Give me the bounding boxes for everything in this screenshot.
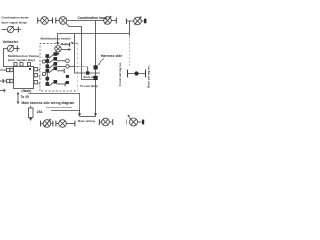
wire hazard feed	[57, 34, 59, 43]
connector half T3	[37, 18, 39, 24]
svg-text:Combination meter: Combination meter	[2, 16, 30, 20]
multifunction switch box	[40, 44, 78, 92]
svg-text:Combination lamp: Combination lamp	[78, 16, 108, 20]
connector half T6	[125, 19, 127, 25]
lamp L3	[104, 17, 112, 25]
svg-text:Voltmeter: Voltmeter	[3, 40, 19, 44]
harness connector lower	[94, 76, 98, 80]
terminals mid column	[54, 52, 58, 56]
flasher unit U1	[14, 67, 34, 89]
svg-text:(turn signal lamp): (turn signal lamp)	[2, 20, 27, 24]
connector half T2	[16, 46, 18, 52]
pin right 1	[34, 68, 37, 71]
svg-text:(flash): (flash)	[22, 89, 32, 93]
wire	[109, 121, 112, 123]
wire	[66, 123, 74, 125]
wire	[14, 29, 18, 31]
wire	[48, 20, 52, 22]
row D	[57, 70, 64, 72]
leader arrow to bus	[79, 111, 81, 115]
wire	[14, 48, 17, 50]
connector pair T4	[52, 18, 54, 24]
connector half T10	[98, 119, 100, 125]
wire stub	[61, 49, 69, 51]
wire	[138, 121, 142, 123]
wire	[127, 20, 134, 22]
svg-text:To #5: To #5	[21, 95, 30, 99]
connector half T12	[126, 120, 128, 125]
lamp L5	[59, 120, 67, 128]
harness connector upper	[94, 65, 98, 69]
hazard pilot lamp	[55, 46, 61, 52]
label rear wiring vertical	[147, 65, 151, 88]
pin right 3	[34, 81, 37, 84]
switch box right edge	[77, 44, 79, 92]
svg-text:Harness side: Harness side	[101, 54, 122, 58]
row B	[57, 60, 66, 62]
underline	[46, 107, 72, 109]
wire V1	[75, 34, 100, 74]
wire L2 branch	[66, 23, 93, 79]
connector half T1	[17, 27, 19, 33]
label to rear lamp	[80, 84, 98, 88]
node inside unit	[29, 68, 31, 70]
svg-text:15A: 15A	[37, 110, 44, 114]
svg-text:Main harness side wiring diagr: Main harness side wiring diagram	[22, 101, 75, 105]
fuse F1	[30, 106, 32, 108]
wire stub	[61, 44, 70, 46]
label combination meter	[2, 16, 30, 25]
lamp L6	[102, 118, 110, 126]
wire V4 right drop	[129, 21, 131, 36]
splice node	[134, 71, 138, 75]
label harness side	[101, 54, 122, 58]
lamp L1	[41, 17, 49, 25]
wire	[4, 49, 14, 67]
wire	[51, 123, 53, 125]
pin left row 1	[0, 69, 7, 71]
wire	[111, 20, 116, 22]
svg-text:Rear wiring: Rear wiring	[78, 119, 95, 123]
terminal block	[142, 120, 144, 125]
meter M1	[7, 26, 13, 32]
connector half T11	[112, 119, 114, 125]
lamp L2	[59, 17, 67, 25]
pin top 2	[20, 63, 23, 66]
lamp L4	[43, 120, 51, 128]
junction node	[86, 71, 89, 74]
svg-text:Front wiring no.: Front wiring no.	[118, 62, 122, 86]
wire bus B	[58, 33, 130, 35]
connector pair T8	[52, 121, 54, 127]
pin top 1	[14, 63, 17, 66]
label note text	[22, 101, 75, 105]
label multifunction switch	[41, 36, 71, 40]
label fuse rating	[37, 110, 44, 114]
svg-text:Body wire: Body wire	[84, 75, 97, 79]
label below unit	[22, 89, 32, 93]
switch common bus	[46, 55, 48, 86]
contact circles	[42, 60, 45, 63]
terminal	[66, 81, 69, 84]
label rear wiring	[78, 119, 95, 123]
pin top 3	[28, 63, 31, 66]
harness drop wire	[95, 21, 97, 117]
svg-text:Rear wiring no.: Rear wiring no.	[147, 65, 151, 88]
label voltmeter	[3, 40, 19, 44]
label body wiring	[84, 75, 97, 79]
wire	[141, 20, 144, 22]
pin left row 2	[0, 80, 7, 82]
wire	[2, 29, 8, 31]
meter M2	[7, 45, 13, 51]
wire	[67, 20, 104, 22]
wire bus bottom	[80, 116, 96, 118]
wire	[38, 20, 41, 22]
wire	[56, 20, 59, 22]
lamp R2	[134, 17, 142, 25]
label flasher unit	[8, 54, 40, 62]
contact arms	[49, 54, 54, 58]
span arrow	[17, 94, 19, 103]
terminals left column	[46, 54, 50, 58]
pin number labels	[38, 68, 40, 85]
label front wiring vertical	[118, 62, 122, 86]
connector half T5	[115, 18, 117, 24]
terminal block	[144, 19, 146, 24]
label combination lamp	[78, 16, 108, 20]
connector half T7	[40, 121, 42, 127]
wire stub	[0, 90, 6, 92]
svg-text:(turn signal relay): (turn signal relay)	[8, 58, 35, 62]
row F	[57, 83, 65, 85]
inline connector right	[127, 70, 129, 78]
row C wire to junction	[57, 65, 75, 67]
note box	[29, 94, 80, 111]
wire	[57, 52, 59, 54]
pin right 2	[34, 74, 37, 77]
lamp L7	[130, 118, 138, 126]
terminal	[66, 75, 69, 78]
connector half T9	[74, 121, 76, 127]
label span note	[21, 95, 30, 99]
svg-text:To rear lamp: To rear lamp	[80, 84, 98, 88]
svg-text:Multifunction switch: Multifunction switch	[41, 36, 71, 40]
